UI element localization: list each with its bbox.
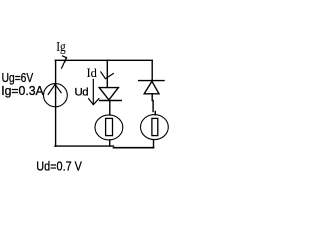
svg-text:Ig: Ig [56,39,65,54]
svg-text:Ud=0.7 V: Ud=0.7 V [36,160,82,174]
svg-text:Id: Id [87,66,98,80]
svg-text:Ud: Ud [75,86,89,98]
svg-text:Ig=0.3A: Ig=0.3A [1,84,44,98]
